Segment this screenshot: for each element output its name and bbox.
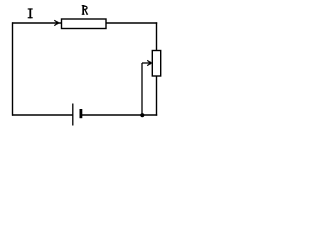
- junction node: wiper wire joins bottom wire: [140, 113, 144, 117]
- label R: [82, 5, 88, 15]
- wiper arrowhead pointing right into box: [147, 60, 151, 65]
- resistor R (box symbol): [62, 19, 107, 29]
- label I (current): [28, 8, 33, 18]
- wire bottom: bottom-left corner to battery positive plate: [12, 114, 73, 116]
- wire right: top-right corner down to potentiometer top pin: [156, 22, 158, 50]
- wire top: left corner to resistor left terminal: [12, 22, 62, 24]
- wire bottom: battery negative plate to bottom-right corner: [81, 114, 157, 116]
- wire right: potentiometer bottom pin down to bottom-right corner: [156, 76, 158, 116]
- battery cell: short thick negative plate: [80, 109, 83, 118]
- wire top: resistor right terminal to top-right corner: [106, 22, 157, 24]
- wire left: top-left corner down to bottom-left corner: [12, 22, 14, 115]
- wiper return wire: vertical down to bottom wire: [141, 63, 143, 115]
- wiper arrow wire: horizontal segment into potentiometer: [142, 62, 151, 64]
- current arrow on top wire (direction of I): [54, 20, 58, 25]
- battery cell: long thin positive plate: [72, 104, 74, 126]
- potentiometer (rheostat) box symbol: [152, 51, 160, 77]
